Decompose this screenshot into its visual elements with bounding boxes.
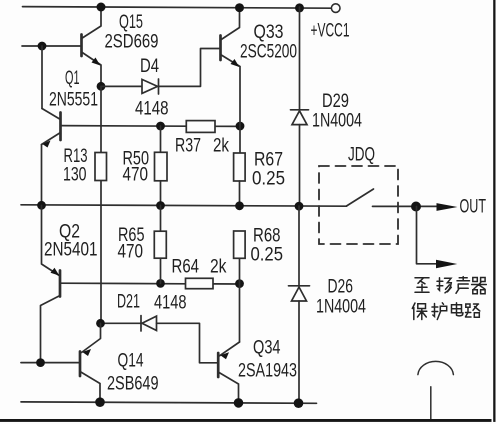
svg-text:0.25: 0.25 — [252, 169, 285, 190]
svg-text:D4: D4 — [140, 56, 159, 77]
svg-text:R68: R68 — [253, 226, 281, 247]
node Q14 base / Q2 collector — [36, 358, 45, 367]
wire R67 bottom — [239, 181, 241, 206]
wire Q1 base to R67 top line — [61, 125, 240, 128]
svg-text:+VCC1: +VCC1 — [311, 21, 350, 42]
resistor R13 — [95, 153, 107, 181]
svg-text:2SD669: 2SD669 — [105, 32, 159, 53]
border right — [493, 0, 495, 422]
svg-text:470: 470 — [123, 165, 149, 186]
diode D21 — [101, 316, 219, 363]
transistor Q1 — [42, 109, 61, 206]
wire mid output rail left — [21, 205, 347, 206]
svg-text:130: 130 — [63, 165, 87, 186]
label lu (circuit) hanzi — [466, 304, 480, 317]
wire Q1 collector vertical — [41, 46, 43, 109]
arrow OUT — [437, 203, 458, 211]
label qi (device) hanzi — [472, 278, 487, 294]
svg-text:Q14: Q14 — [118, 351, 144, 372]
svg-text:4148: 4148 — [154, 293, 187, 314]
diode D4 — [101, 49, 221, 95]
svg-text:2SC5200: 2SC5200 — [240, 42, 297, 63]
svg-text:D21: D21 — [117, 292, 140, 313]
svg-text:Q15: Q15 — [119, 12, 143, 33]
svg-text:2N5401: 2N5401 — [44, 240, 98, 261]
label zhi (to) hanzi — [415, 278, 429, 293]
wire top VCC rail — [23, 7, 332, 9]
label bao (protect) hanzi — [412, 303, 427, 320]
svg-text:Q1: Q1 — [65, 68, 80, 89]
wire Q15 base line — [22, 45, 82, 47]
svg-text:2k: 2k — [213, 136, 229, 157]
svg-text:4148: 4148 — [135, 99, 169, 120]
wire to speaker protection — [417, 207, 437, 264]
svg-text:2SA1943: 2SA1943 — [238, 361, 297, 382]
node OUT junction — [411, 202, 421, 212]
node Q15 base / Q1 collector junction — [38, 42, 47, 51]
svg-text:2N5551: 2N5551 — [49, 90, 98, 111]
node Q15 collector on top rail — [97, 3, 106, 12]
svg-text:1N4004: 1N4004 — [316, 297, 366, 318]
node mid rail R50/R65 — [156, 201, 165, 210]
wire lower mid rail (Q2 base to R64/R68) — [60, 282, 240, 285]
svg-text:1N4004: 1N4004 — [312, 111, 362, 132]
transistor Q14 — [80, 323, 101, 402]
svg-text:D26: D26 — [328, 277, 354, 298]
wire bottom rail — [21, 402, 317, 403]
resistor R67 — [234, 153, 246, 181]
diode D29 — [291, 7, 309, 206]
diode D26 — [289, 206, 310, 403]
svg-text:D29: D29 — [322, 91, 349, 112]
svg-text:R67: R67 — [254, 150, 283, 171]
svg-text:0.25: 0.25 — [251, 245, 284, 266]
node lower rail R65 — [156, 279, 165, 288]
node Q15 emitter / D4 anode / R13 top — [97, 82, 106, 91]
arrow to speaker protection — [436, 260, 457, 269]
svg-text:Q34: Q34 — [253, 338, 281, 359]
arc partial symbol bottom right — [418, 361, 454, 374]
node bottom rail Q14 collector — [95, 397, 105, 407]
svg-text:JDQ: JDQ — [348, 145, 375, 166]
wire Q14 base line — [21, 362, 80, 364]
border bottom — [0, 419, 492, 422]
node D21 / Q14 emitter / R13 column — [96, 319, 105, 328]
resistor R64 — [186, 278, 214, 288]
resistor R37 — [186, 121, 215, 133]
transistor Q33 — [221, 7, 241, 153]
node lower rail R64 right / R68 bottom — [235, 279, 244, 288]
wire R68 to Q34 emitter column — [239, 258, 241, 342]
wire R13 column — [100, 86, 102, 323]
svg-text:R37: R37 — [175, 136, 201, 157]
transistor Q15 — [82, 7, 102, 86]
svg-text:OUT: OUT — [460, 197, 487, 218]
svg-text:Q33: Q33 — [254, 22, 284, 43]
label dian (electric) hanzi — [452, 303, 464, 316]
transistor Q34 — [218, 342, 239, 403]
label hu (guard) hanzi — [432, 303, 447, 320]
node mid rail D29/D26 — [295, 202, 304, 211]
wire relay fixed contact to OUT node — [373, 205, 437, 207]
svg-text:2SB649: 2SB649 — [107, 374, 159, 395]
transistor Q2 — [41, 205, 61, 362]
node Q33 collector on top rail — [235, 3, 244, 12]
wire below arc — [430, 387, 432, 419]
node bottom rail Q34 collector — [234, 398, 244, 408]
resistor R68 — [234, 231, 246, 258]
svg-text:470: 470 — [118, 242, 144, 263]
wire R50 column — [160, 126, 162, 205]
svg-text:R64: R64 — [172, 257, 200, 278]
node bottom rail D26 anode — [294, 398, 304, 408]
node R50 top — [156, 122, 165, 131]
label sheng (sound) hanzi — [456, 277, 470, 294]
label yang (speaker) hanzi — [437, 278, 451, 293]
relay JDQ dashed box — [319, 166, 398, 244]
resistor R65 — [154, 231, 166, 258]
svg-text:2k: 2k — [210, 257, 227, 278]
node R37 right / R67 top / Q33 emitter — [236, 122, 245, 131]
node D29 column on top rail — [295, 3, 304, 12]
wire R65 column — [160, 205, 162, 283]
node mid rail Q1/Q2 emitters — [37, 201, 46, 210]
resistor R50 — [155, 152, 168, 181]
relay switch arm — [347, 189, 374, 206]
terminal +VCC1 — [331, 4, 340, 13]
node mid rail R67/R68 — [235, 201, 244, 210]
